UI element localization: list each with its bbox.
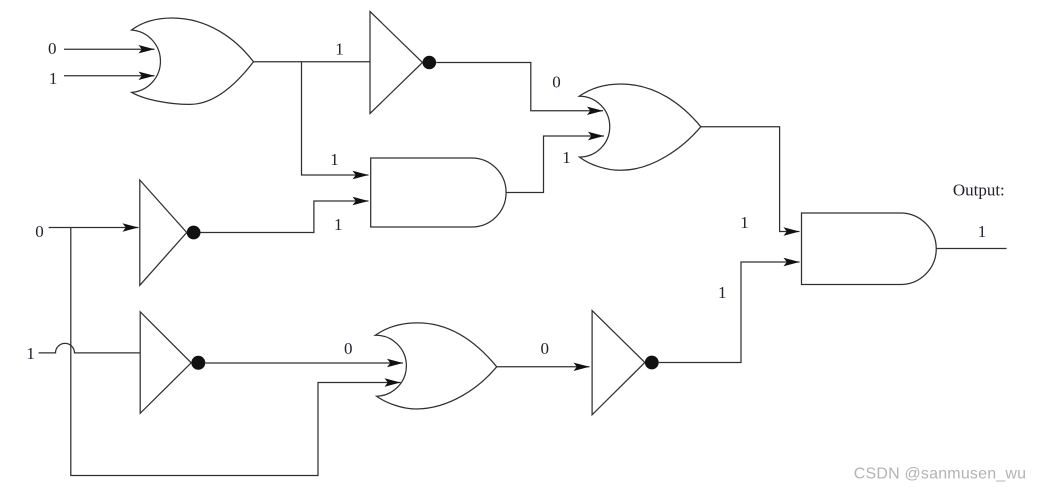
- svg-text:1: 1: [335, 39, 344, 58]
- svg-text:0: 0: [48, 39, 57, 58]
- svg-text:0: 0: [344, 339, 353, 358]
- svg-text:1: 1: [740, 213, 749, 232]
- svg-text:0: 0: [35, 222, 44, 241]
- svg-text:Output:: Output:: [953, 181, 1005, 200]
- svg-text:1: 1: [334, 215, 343, 234]
- svg-text:1: 1: [718, 283, 727, 302]
- svg-text:1: 1: [49, 69, 58, 88]
- svg-text:CSDN @sanmusen_wu: CSDN @sanmusen_wu: [854, 466, 1027, 483]
- svg-text:1: 1: [330, 150, 339, 169]
- svg-text:1: 1: [562, 148, 571, 167]
- svg-text:0: 0: [552, 73, 561, 92]
- svg-text:1: 1: [26, 344, 35, 363]
- svg-text:1: 1: [978, 222, 987, 241]
- svg-text:0: 0: [540, 339, 549, 358]
